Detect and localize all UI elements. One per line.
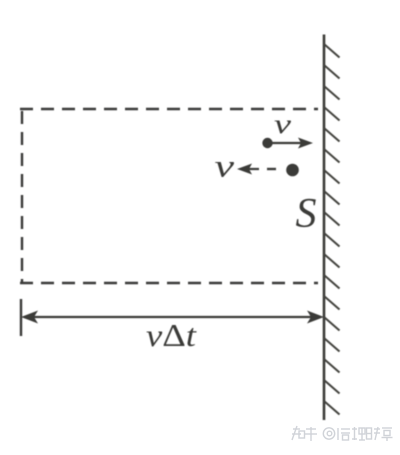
hanzi 乎 [305,427,317,441]
wall hatching [324,44,340,415]
svg-text:S: S [296,191,317,237]
dimension arrowhead left [21,311,38,324]
at-sign [323,428,334,439]
dashed box top edge [20,108,318,110]
dimension arrow line [34,316,311,318]
hanzi 晓 [367,427,381,440]
svg-text:vΔt: vΔt [146,317,197,353]
dash between dot and left arrow [267,168,276,170]
left extension tick [20,299,22,336]
velocity arrow right [272,138,313,149]
dashed box bottom edge [20,282,318,284]
dimension arrowhead right [307,311,324,324]
velocity arrow left [237,164,259,175]
watermark 知乎 @悟理晓章 (faint gray, drawn as vector glyph shapes) [292,426,393,441]
svg-text:v: v [215,148,236,184]
hanzi 理 [352,427,365,440]
dashed box left edge [21,111,23,283]
particle dot (moving right) [262,138,272,148]
hanzi 悟 [338,428,350,440]
hanzi 章 [382,428,393,441]
particle dot (moving left, reflected) [286,164,299,177]
wall (hatched vertical line) [323,35,326,421]
hanzi 知 [292,426,305,440]
svg-text:v: v [274,109,291,139]
